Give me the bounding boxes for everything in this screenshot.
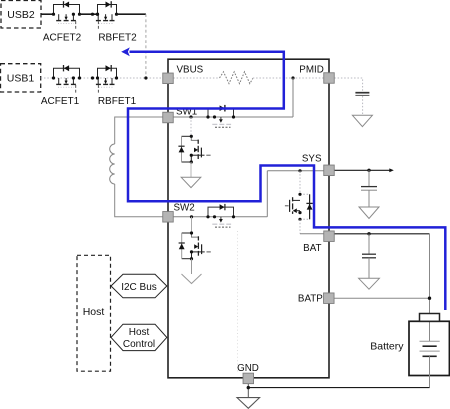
wire BATP external — [334, 297, 429, 299]
transistor ACFET1 — [52, 65, 81, 93]
wire battery return to GND — [248, 387, 429, 389]
svg-text:ACFET1: ACFET1 — [41, 96, 80, 107]
transistor ACFET2 — [52, 1, 81, 29]
wire BATFET to BAT (dotted) — [299, 220, 301, 234]
wire USB1 row (dotted) — [41, 77, 163, 79]
resistor internal VBUS-PMID — [220, 72, 253, 84]
pin pad BAT — [324, 231, 335, 242]
junction SYS cap — [367, 169, 370, 172]
transistor Q2 high-side (SW2) — [190, 204, 235, 227]
svg-text:USB2: USB2 — [7, 9, 35, 21]
battery box B1 — [409, 321, 449, 375]
svg-text:GND: GND — [237, 363, 259, 374]
wire SYS to cap — [368, 170, 370, 186]
wire VBUS to resistor (dotted) — [173, 77, 219, 79]
battery cells — [420, 341, 440, 356]
wire battery bottom — [429, 356, 431, 387]
transistor Q4 low-side — [179, 231, 211, 260]
pin pad SW2 — [163, 212, 174, 223]
wire riser SW2 to SYS — [266, 171, 268, 217]
IC charger block — [168, 59, 329, 378]
wire SYS to BATFET (dotted) — [299, 171, 301, 194]
junction BATP battery — [428, 297, 431, 300]
wire BAT node down to battery — [429, 234, 431, 341]
wire inductor to SW2 — [115, 184, 163, 217]
svg-text:Host: Host — [83, 306, 105, 318]
wire SYS row internal — [267, 170, 323, 172]
wire PMID to cap (dotted) — [334, 78, 362, 92]
power path highlight boost mode — [128, 52, 445, 310]
junction GND — [247, 386, 250, 389]
junction USB rows to VBUS — [144, 76, 147, 79]
svg-text:RBFET2: RBFET2 — [98, 33, 137, 44]
capacitor C2 SYS — [361, 187, 377, 191]
svg-text:SYS: SYS — [302, 153, 322, 164]
wire SYS external — [334, 169, 391, 171]
ground BAT — [359, 278, 380, 289]
pin pad GND — [243, 373, 254, 384]
wire BAT external — [334, 233, 429, 235]
svg-text:BAT: BAT — [303, 243, 321, 254]
host block — [77, 255, 111, 371]
wire resistor to PMID node (dotted) — [253, 77, 324, 79]
wire SW1 to inductor — [115, 117, 163, 144]
wire BAT to cap — [368, 234, 370, 254]
svg-text:ACFET2: ACFET2 — [43, 33, 82, 44]
wire GND pad down — [247, 384, 249, 398]
junction BAT cap — [367, 232, 370, 235]
wire cap to ground (dotted) — [362, 96, 364, 115]
wire cap to ground — [368, 258, 370, 279]
signal I2C Bus — [111, 274, 167, 298]
transistor RBFET2 — [96, 1, 118, 29]
wire USB2 branch down to VBUS node (dashed) — [145, 14, 147, 78]
svg-text:SW2: SW2 — [174, 202, 195, 213]
pin pad SYS — [324, 165, 335, 176]
wire Q3 to internal ground — [190, 162, 192, 177]
pin pad BATP — [324, 293, 335, 304]
signal Host Control — [111, 324, 167, 350]
pin pad VBUS — [163, 73, 174, 84]
junction PMID node — [291, 76, 294, 79]
inductor L1 — [110, 144, 115, 184]
wire SW2 row internal — [173, 216, 267, 218]
ground PMID — [352, 115, 372, 126]
transistor BATFET — [285, 193, 313, 221]
ground main — [237, 398, 260, 409]
diode body D1 (SW1 high-side) — [220, 105, 225, 112]
transistor Q1 high-side (SW1) — [189, 108, 235, 127]
svg-text:Host: Host — [129, 327, 150, 338]
wire RBFET2 to corner — [117, 13, 146, 15]
connector USB2 — [1, 1, 41, 29]
wire PMID node down to SW1 FET — [292, 78, 294, 117]
connector USB1 — [1, 64, 41, 92]
svg-text:USB1: USB1 — [7, 73, 35, 85]
svg-text:RBFET1: RBFET1 — [98, 96, 137, 107]
capacitor C3 BAT — [362, 254, 376, 258]
pin pad PMID — [324, 73, 335, 84]
ground internal 2 chevron — [182, 274, 202, 284]
wire BAT row internal — [300, 233, 324, 235]
battery terminal cap — [420, 314, 440, 322]
svg-text:BATP: BATP — [298, 294, 323, 305]
power path arrowhead — [121, 47, 130, 56]
wire ACFET2 to RBFET2 — [80, 13, 100, 16]
wire cap to ground — [368, 190, 370, 207]
wire SW1 node to Q3 (dotted) — [190, 117, 192, 136]
svg-text:Battery: Battery — [370, 341, 404, 353]
svg-text:I2C Bus: I2C Bus — [121, 282, 157, 293]
transistor Q3 internal — [178, 135, 210, 164]
transistor RBFET1 — [96, 65, 118, 93]
wire SW2 node to Q4 — [191, 217, 193, 233]
pin pad SW1 — [163, 112, 174, 123]
wire gate drive dotted — [237, 231, 239, 372]
wire Q4 to internal ground — [191, 259, 193, 274]
ground internal 1 — [181, 177, 201, 187]
capacitor C1 PMID — [355, 93, 369, 96]
junction SYS internal — [298, 169, 301, 172]
ground SYS — [359, 207, 379, 219]
svg-text:VBUS: VBUS — [177, 64, 204, 75]
wire SW1 row internal — [173, 116, 293, 118]
wire USB2 to ACFET2 — [41, 13, 54, 15]
svg-text:Control: Control — [123, 339, 155, 350]
arrow SYS out — [389, 168, 394, 172]
svg-text:PMID: PMID — [299, 64, 324, 75]
